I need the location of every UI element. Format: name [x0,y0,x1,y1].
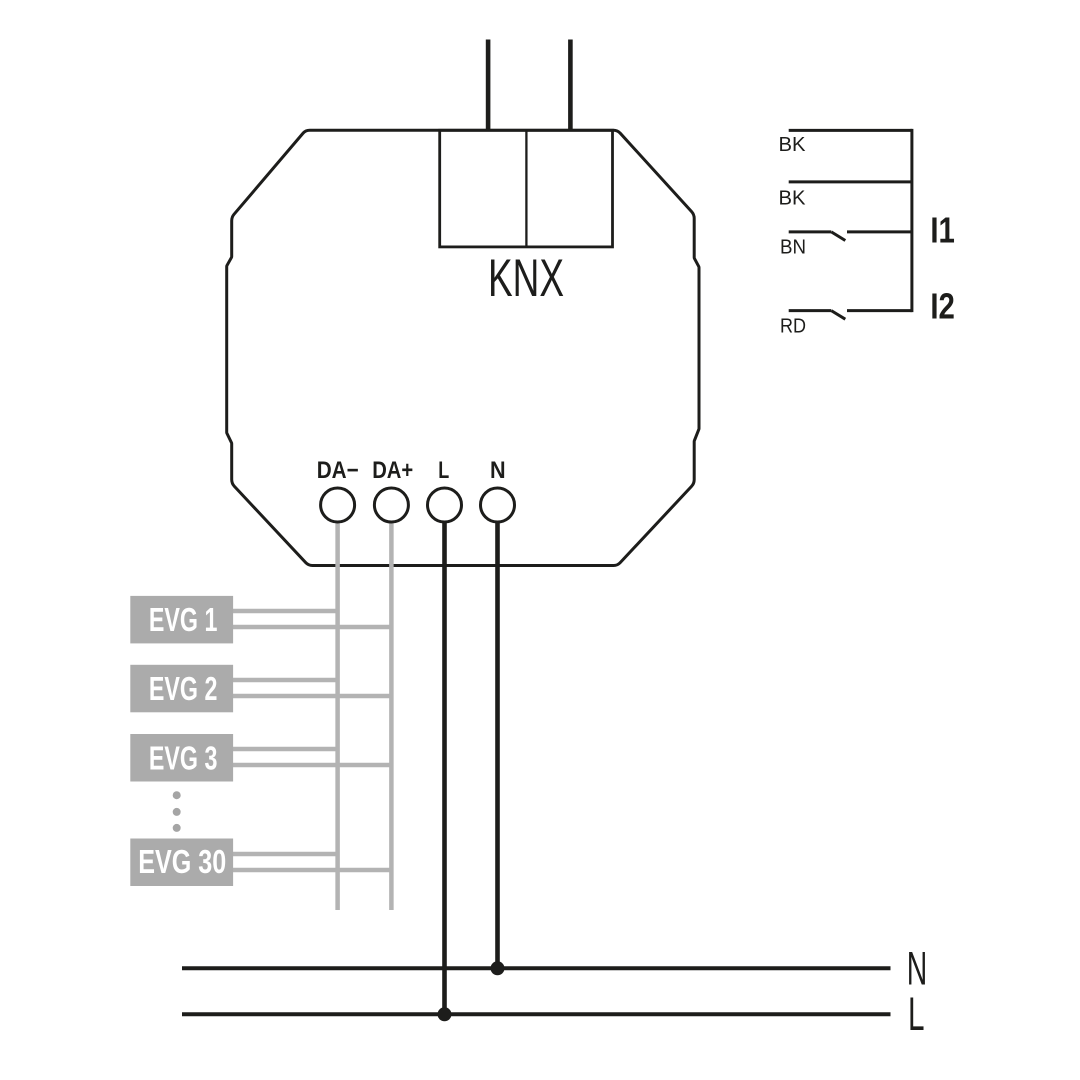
svg-text:I1: I1 [930,209,955,250]
svg-text:L: L [908,987,925,1040]
device body U1: flush-mount KNX/DALI gateway outline [227,130,699,565]
svg-text:EVG 2: EVG 2 [149,670,218,707]
terminal L [428,488,462,522]
wire: N conductor vertical (black) [495,521,500,968]
ellipsis dots (more ballasts) [173,791,181,799]
wire: DA- DALI bus vertical (grey) [335,521,340,910]
junction: N wire to N line [491,961,505,975]
svg-text:BN: BN [780,237,806,259]
KNX bus terminal block X1 [440,130,613,247]
svg-text:KNX: KNX [488,249,564,308]
svg-text:BK: BK [779,134,807,156]
svg-text:EVG 30: EVG 30 [138,843,226,880]
svg-text:I2: I2 [930,286,955,327]
svg-text:DA+: DA+ [372,457,413,484]
ballast EVG 30 [130,839,233,887]
switch S1: BN lead with contact blade [789,230,832,233]
wire: L conductor vertical (black) [442,521,447,1014]
wire: DA+ DALI bus vertical (grey) [389,521,394,910]
svg-text:L: L [438,457,449,484]
wire: BK input lead 1 [789,129,912,132]
ballast EVG 2 [130,665,233,713]
switch S2: RD lead with contact blade [789,309,832,312]
junction: L wire to L line [438,1007,452,1021]
wire: EVG 30 leads (grey) [233,852,338,857]
svg-text:EVG 1: EVG 1 [149,601,218,638]
ballast EVG 1 [130,596,233,644]
wire: EVG 2 leads (grey) [233,678,338,683]
wire: EVG 3 leads (grey) [233,747,338,752]
svg-text:EVG 3: EVG 3 [149,739,218,776]
svg-text:N: N [490,457,506,484]
wire: binary input common bus (vertical, right) [910,129,913,312]
terminal DA- [321,488,355,522]
ballast EVG 3 [130,734,233,782]
net L: mains phase line [182,1012,891,1016]
svg-text:RD: RD [780,316,806,338]
svg-text:DA−: DA− [317,457,359,484]
terminal DA+ [374,488,408,522]
svg-text:BK: BK [779,187,807,209]
wire: BK input lead 2 [789,180,912,183]
terminal N [481,488,515,522]
wire: KNX bus conductor right (into bus terminal) [568,40,573,132]
net N: mains neutral line [182,966,891,970]
KNX bus terminal divider [525,130,527,247]
wire: KNX bus conductor left (into bus terminal) [486,40,491,132]
wire: EVG 1 leads (grey) [233,609,338,614]
